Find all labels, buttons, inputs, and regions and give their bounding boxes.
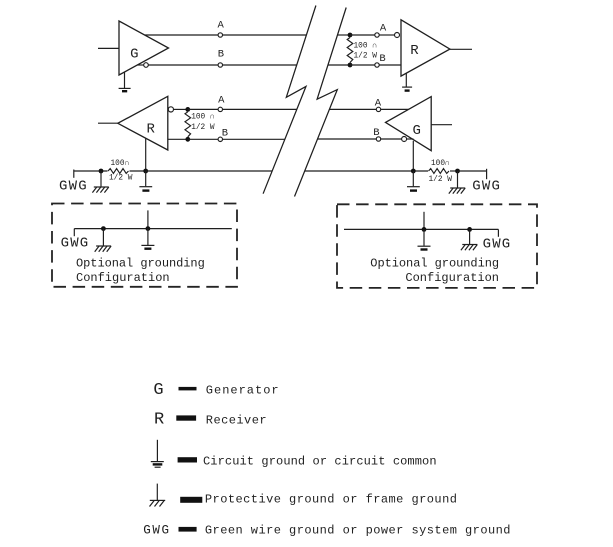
junction (right circuit ground tap): [411, 169, 416, 174]
wire terminal A to G4: [381, 108, 409, 110]
inversion bubble on G1 output B: [144, 63, 149, 68]
node B (left pair terminal B): [218, 63, 222, 67]
svg-text:G: G: [412, 123, 420, 139]
junction (right box circuit ground tap): [422, 227, 427, 232]
node A (left pair terminal A): [218, 33, 222, 37]
optional grounding box (left, dashed): [52, 204, 237, 287]
wire bubble to G4: [407, 138, 414, 140]
junction (left protective ground tap): [99, 169, 104, 174]
svg-text:G: G: [153, 381, 163, 400]
wire A1 right of break: [338, 34, 350, 36]
svg-text:GWG: GWG: [472, 179, 501, 195]
wire right box bus: [344, 228, 498, 230]
ground (circuit ground, right box): [418, 229, 431, 249]
wire resistor to junction: [450, 170, 458, 172]
wire stub into left box: [147, 210, 149, 228]
svg-text:GWG: GWG: [143, 524, 170, 538]
svg-text:R: R: [154, 411, 164, 430]
protective ground (frame ground, right bus): [449, 171, 465, 194]
wire R2 output stub: [450, 48, 472, 50]
wire A2 right of break: [329, 108, 376, 110]
legend dash (protective ground): [180, 497, 202, 503]
svg-text:R: R: [410, 43, 419, 59]
svg-text:A: A: [375, 97, 382, 109]
protective ground (legend symbol): [150, 484, 166, 507]
svg-text:R: R: [146, 121, 155, 137]
wire junction to terminal B: [350, 64, 375, 66]
junction (left box circuit ground tap): [146, 226, 151, 231]
wire B1 bubble to terminal: [148, 64, 218, 66]
wire stub into right box: [423, 212, 425, 230]
wire G4 ground drop: [412, 141, 414, 171]
junction (B1 / R T1 bottom): [348, 63, 353, 68]
wire terminal to bubble: [379, 34, 394, 36]
generator G1 (top-left driver): [119, 21, 169, 75]
svg-text:1/2 W: 1/2 W: [429, 176, 453, 184]
svg-text:G: G: [130, 46, 138, 62]
wire ground bus right of break: [305, 170, 428, 172]
svg-text:A: A: [380, 23, 387, 35]
ground (legend circuit ground symbol): [151, 440, 164, 467]
legend dash (receiver): [176, 415, 196, 420]
optional grounding box (right, dashed): [337, 204, 537, 288]
line break symbol (left polyline): [263, 6, 316, 194]
wire terminal B to bubble: [381, 138, 402, 140]
wire terminal B to R2: [379, 64, 401, 66]
wire terminal B to break: [223, 138, 285, 140]
svg-text:100∩: 100∩: [111, 160, 130, 168]
wire A1 from G1 output to terminal: [145, 34, 218, 36]
svg-text:GWG: GWG: [61, 236, 90, 252]
wire G1 inverting output stub: [137, 64, 143, 66]
svg-text:1/2 W: 1/2 W: [354, 53, 378, 61]
wire G4 input stub: [431, 124, 452, 126]
resistor R5 (100 ohm 1/2 W, left ground bond): [108, 169, 129, 174]
wire bubble to junction: [174, 108, 188, 110]
ground (circuit ground under R2): [402, 73, 412, 90]
svg-text:Optional grounding: Optional grounding: [76, 256, 205, 270]
junction (right box protective tap): [467, 227, 472, 232]
node B (right pair 2 terminal): [376, 137, 380, 141]
ground (circuit ground, left bus): [139, 171, 152, 191]
svg-text:B: B: [379, 53, 385, 65]
svg-text:100 ∩: 100 ∩: [354, 43, 377, 51]
svg-text:Configuration: Configuration: [76, 271, 170, 285]
receiver R2 (top-right): [401, 20, 450, 76]
svg-text:A: A: [218, 19, 225, 31]
svg-text:1/2 W: 1/2 W: [109, 174, 133, 182]
legend dash (generator): [179, 387, 197, 391]
wire ground bus left to break: [146, 170, 273, 172]
node A (left pair 2 terminal): [218, 107, 222, 111]
protective ground (frame ground, left bus): [92, 171, 108, 193]
junction (left box protective tap): [101, 226, 106, 231]
svg-text:Generator: Generator: [206, 384, 280, 398]
node B (right receiver terminal B): [375, 63, 379, 67]
inversion bubble on R2 input A: [395, 33, 400, 38]
resistor T2 (100 ohm 1/2 W termination, left): [185, 112, 191, 137]
wire ground bus to GWG (right): [458, 170, 487, 172]
resistor T1 (100 ohm 1/2 W termination, right): [347, 38, 353, 63]
junction (B2 / T2 bottom): [185, 137, 190, 142]
svg-text:GWG: GWG: [59, 178, 88, 194]
svg-text:100 ∩: 100 ∩: [191, 114, 214, 122]
svg-text:B: B: [373, 127, 379, 139]
svg-text:Protective ground or frame gro: Protective ground or frame ground: [205, 493, 458, 507]
svg-text:B: B: [218, 49, 224, 61]
wire B2 right of break: [317, 138, 376, 140]
wire GWG stub tick (right): [486, 169, 488, 179]
inversion bubble on R3 input A: [168, 107, 173, 112]
wire terminal A to break: [223, 108, 297, 110]
svg-text:Receiver: Receiver: [206, 413, 267, 427]
junction (A2 / T2 top): [185, 107, 190, 112]
node A (right receiver terminal A): [375, 33, 379, 37]
wire right box tick: [497, 229, 499, 236]
legend dash (GWG): [179, 527, 197, 532]
generator G4 (right, second pair): [386, 97, 432, 151]
junction (A1 / R T1 top): [348, 33, 353, 38]
node A (right pair 2 terminal): [376, 107, 380, 111]
svg-text:GWG: GWG: [483, 237, 512, 253]
wire left box tick: [73, 229, 75, 237]
wire R3 ground drop: [145, 138, 147, 171]
junction (right protective ground tap): [455, 169, 460, 174]
receiver R3 (left, second pair): [118, 96, 168, 150]
junction (left circuit ground tap): [143, 169, 148, 174]
wire R3 output stub: [98, 122, 118, 124]
svg-text:Circuit ground or circuit comm: Circuit ground or circuit common: [203, 454, 437, 468]
svg-text:Green wire ground or power sys: Green wire ground or power system ground: [205, 523, 511, 537]
line break symbol (right polyline): [295, 8, 347, 197]
ground (circuit ground, left box): [141, 229, 154, 249]
node B (left pair 2 terminal): [218, 137, 222, 141]
wire A1 terminal to line break: [223, 34, 307, 36]
protective ground (left box): [95, 229, 111, 252]
wire B1 right of break: [328, 64, 350, 66]
svg-text:A: A: [218, 94, 225, 106]
wire left box bus: [74, 228, 232, 230]
inversion bubble on G4 input B: [402, 137, 407, 142]
legend dash (circuit ground): [178, 457, 197, 462]
wire G1 input stub: [98, 47, 119, 49]
wire junction to terminal A: [350, 34, 375, 36]
wire ground bus left: [74, 170, 108, 172]
svg-text:100∩: 100∩: [431, 160, 450, 168]
wire junction to terminal B: [188, 138, 218, 140]
wire R3 input B: [168, 138, 188, 140]
wire junction to terminal A: [188, 108, 218, 110]
svg-text:B: B: [222, 127, 228, 139]
svg-text:Configuration: Configuration: [405, 271, 499, 285]
wire B1 terminal to line break: [223, 64, 297, 66]
ground (circuit ground, right bus): [407, 171, 420, 191]
svg-text:1/2 W: 1/2 W: [191, 124, 215, 132]
protective ground (right box): [461, 229, 477, 250]
resistor R6 (100 ohm 1/2 W, right ground bond): [429, 169, 450, 174]
ground (circuit ground under G1): [119, 72, 131, 91]
wire resistor to junction: [130, 170, 146, 172]
svg-text:Optional grounding: Optional grounding: [370, 256, 499, 270]
wire GWG stub tick (left): [73, 170, 75, 178]
